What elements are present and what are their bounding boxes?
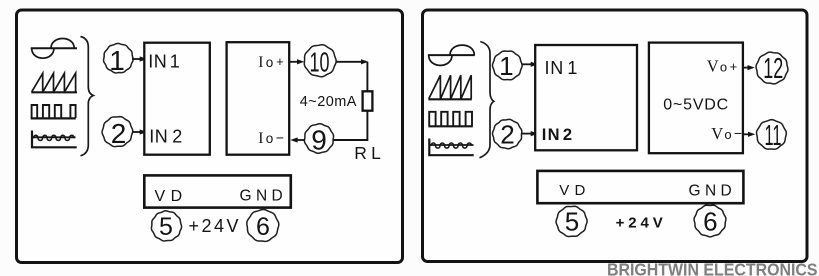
wire: circle 2 to IN2 with arrowhead (right) (522, 131, 538, 136)
wire: resistor to circle 9 (333, 111, 367, 140)
svg-text:GND: GND (240, 187, 288, 204)
terminal circle 10 (304, 45, 336, 78)
output module box U2 (227, 42, 290, 155)
power terminal box VD/GND (144, 175, 290, 207)
wire: circle 10 to load corner with arrowhead (336, 59, 368, 91)
terminal circle 1 (right) (492, 51, 522, 81)
terminal circle 6 (247, 209, 279, 241)
wire: circle 9 to Io- with arrowhead (290, 137, 305, 142)
svg-text:IN2: IN2 (542, 126, 573, 144)
svg-text:11: 11 (765, 120, 782, 152)
svg-text:IN1: IN1 (545, 58, 579, 78)
terminal circle 5 (right) (556, 206, 587, 236)
input module box U3 (right) (535, 45, 637, 150)
wire: circle 1 to IN1 with arrowhead (132, 56, 147, 61)
square wave symbol (31, 105, 76, 118)
wire: Io+ to circle 10 with arrowhead (290, 59, 304, 64)
terminal circle 5 (151, 211, 181, 241)
square wave symbol (right) (428, 112, 472, 127)
svg-text:1: 1 (109, 45, 125, 76)
svg-text:10: 10 (310, 47, 330, 78)
svg-text:Vo−: Vo− (711, 124, 742, 143)
power terminal box VD/GND (right) (537, 171, 743, 203)
ripple wave symbol (right) (429, 139, 473, 156)
terminal circle 12 (756, 52, 788, 85)
svg-text:VD: VD (155, 188, 188, 205)
svg-text:6: 6 (256, 213, 270, 241)
svg-text:2: 2 (111, 118, 127, 149)
svg-text:9: 9 (311, 124, 327, 155)
svg-text:0~5VDC: 0~5VDC (663, 97, 729, 114)
terminal circle 2 (102, 117, 133, 150)
svg-text:Io−: Io− (258, 129, 284, 147)
svg-text:IN2: IN2 (149, 127, 183, 147)
svg-text:5: 5 (565, 206, 579, 236)
input group brace (81, 37, 94, 156)
wire: circle 2 to IN2 with arrowhead (133, 129, 148, 134)
sine wave symbol (31, 39, 77, 59)
input module box U1 (144, 43, 210, 155)
svg-text:Io+: Io+ (258, 54, 283, 71)
svg-text:RL: RL (354, 143, 385, 163)
input group brace (right) (480, 42, 494, 158)
sawtooth wave symbol (31, 73, 77, 92)
sawtooth wave symbol (right) (428, 75, 471, 99)
svg-text:5: 5 (159, 213, 173, 241)
terminal circle 2 (right) (493, 119, 522, 149)
svg-text:Vo+: Vo+ (707, 57, 737, 76)
terminal circle 9 (304, 124, 333, 156)
load resistor RL (363, 91, 373, 110)
svg-text:1: 1 (499, 51, 513, 81)
svg-text:+24V: +24V (189, 216, 242, 236)
wire: Vo+ to circle 12 with arrowhead (744, 65, 755, 70)
svg-text:4~20mA: 4~20mA (300, 94, 357, 110)
svg-text:12: 12 (763, 53, 783, 85)
svg-text:BRIGHTWIN ELECTRONICS: BRIGHTWIN ELECTRONICS (607, 260, 818, 276)
right panel border (423, 10, 808, 262)
output module box U4 (right) (649, 43, 743, 154)
terminal circle 11 (757, 120, 787, 152)
wire: Vo- to circle 11 with arrowhead (744, 132, 756, 137)
wire: circle 1 to IN1 with arrowhead (right) (522, 62, 538, 67)
svg-text:2: 2 (500, 120, 514, 150)
sine wave symbol (right) (428, 45, 475, 65)
left panel border (17, 10, 403, 263)
svg-text:VD: VD (559, 182, 590, 199)
svg-text:GND: GND (689, 183, 737, 200)
ripple (DC with noise) wave symbol (32, 131, 77, 148)
terminal circle 6 (right) (694, 205, 726, 237)
terminal circle 1 (104, 43, 134, 76)
svg-text:IN1: IN1 (148, 51, 180, 71)
svg-text:6: 6 (703, 206, 717, 236)
svg-text:+24V: +24V (616, 215, 667, 232)
